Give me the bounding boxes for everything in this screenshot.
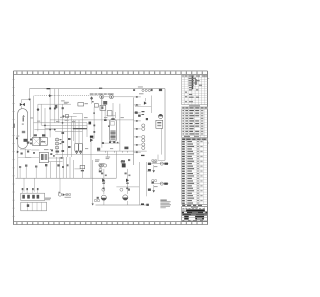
valve on pump P1 suction — [102, 179, 105, 184]
riser x73.7 — [73, 120, 75, 141]
pipe long bottom run y178.2 — [16, 177, 117, 179]
riser x58.7 — [58, 89, 60, 123]
riser x62.5 — [62, 104, 64, 157]
valve on pump P2 suction — [126, 179, 129, 184]
pipe stub y168.9 — [74, 168, 80, 170]
pipe label text above gas train — [90, 93, 114, 95]
general notes text block — [160, 200, 171, 209]
pump P1 with instruments — [100, 164, 107, 200]
riser x37.9 — [37, 104, 39, 131]
small tag on H1 at x99 — [99, 88, 102, 89]
instrument cluster x141-150 — [142, 96, 152, 121]
riser x165 return line — [164, 89, 166, 161]
parts list table — [182, 138, 208, 204]
heat exchanger W3 — [156, 120, 163, 160]
riser x75.1 — [74, 120, 76, 143]
small equipment marks y162-172 left — [19, 164, 69, 178]
vessel B1 bottom outlet — [24, 149, 26, 158]
arrow at discharge end — [146, 204, 149, 206]
pump P3 circle — [158, 114, 162, 118]
riser x146.7 distribution line — [146, 162, 148, 196]
bottom-left dosing unit — [21, 188, 51, 211]
pump bay frame line y186.9 — [116, 186, 139, 188]
valve x144.4 — [138, 98, 152, 106]
inline strainer x80-85 — [80, 165, 85, 171]
check valve left of pump P1 — [97, 197, 99, 199]
pipe run y154.6 — [55, 154, 134, 156]
valve on riser x54.8 — [54, 108, 56, 110]
dosing unit feed lines — [23, 178, 25, 192]
riser x45 — [44, 108, 46, 137]
riser x119.9 — [119, 104, 121, 151]
riser x82.4 — [81, 113, 83, 178]
vessel B1 — [16, 109, 29, 149]
instrument bubbles chain x143.3 — [142, 124, 145, 150]
riser x139.3 — [138, 162, 140, 205]
level instruments x99-103 — [99, 163, 102, 172]
pipe run y120 — [50, 119, 134, 121]
equipment list table — [182, 107, 208, 138]
riser x113 column feed — [112, 103, 114, 119]
pipe run y150 — [31, 149, 39, 151]
battery limit line x50.7 — [50, 162, 52, 178]
heat exchanger W2 — [39, 134, 47, 145]
valve on vessel B1 inlet — [20, 100, 25, 109]
packed column C1 — [106, 112, 118, 143]
riser x89.3 — [93, 107, 95, 138]
parts list footer strip — [182, 204, 208, 207]
pipe run y99.7 — [21, 99, 31, 101]
fitting blob x61.6 — [62, 107, 64, 109]
riser x116.4 — [115, 151, 117, 178]
junction arrow at node x29.5 — [28, 99, 30, 101]
pipe run y104.2 — [38, 103, 71, 105]
revision table — [182, 75, 208, 105]
junction dots — [44, 122, 63, 130]
riser x67.6 — [67, 116, 69, 157]
left border tick marks — [13, 79, 15, 216]
reducer fittings on pump lines — [103, 188, 105, 190]
pipe run y128.3 — [45, 127, 85, 129]
sheet frame border — [14, 71, 208, 225]
pipe dotted run H2 — [35, 95, 100, 97]
pipe run y116.3 — [62, 115, 77, 117]
comb risers to bottom run — [56, 157, 73, 178]
marks on riser x94.1 — [93, 112, 95, 114]
tick fittings on run y151.1 — [102, 142, 128, 152]
pipe run y125.4 — [42, 124, 87, 126]
riser x41.2 — [40, 104, 42, 125]
riser x87 — [86, 123, 88, 137]
fitting chain on header H1 — [133, 89, 162, 92]
pipe run y131.3 — [55, 130, 82, 132]
misc dark marks — [50, 147, 144, 205]
pipe labels and tags — [17, 86, 158, 195]
bottom border grid-reference strip — [17, 222, 203, 224]
heat exchanger W1 — [30, 134, 40, 145]
riser x79 — [78, 120, 80, 143]
pipe run y129.6 — [34, 129, 54, 131]
valve station x90-98 — [91, 97, 99, 107]
valve at h4 junction x88.5 — [89, 122, 92, 125]
valve on riser x50.1 — [49, 108, 51, 110]
sample cooler branch group 2 — [148, 179, 169, 192]
riser x54.8 — [54, 89, 56, 123]
sample cooler branch group 1 — [147, 159, 169, 172]
bold jacketed segment y128.7 — [73, 128, 87, 130]
battery limit line x17.8 — [17, 138, 19, 178]
riser x34.4 — [33, 96, 35, 138]
pump P2 with motor — [121, 160, 128, 200]
equipment list table caption — [189, 105, 200, 106]
pipe run y143.1 — [102, 142, 120, 144]
twin separators — [75, 144, 83, 154]
pipe run y161.4 — [48, 160, 62, 162]
pipe pump discharge header y205 — [96, 204, 149, 206]
drain station cluster x58-72 — [58, 178, 71, 198]
inline filter y114.7 — [65, 115, 68, 118]
pipe run y151.1 — [97, 150, 147, 152]
gas train valves x99-118 — [100, 94, 114, 120]
pipe run to injection header y96.8 — [113, 96, 133, 98]
riser x50.1 — [49, 89, 51, 138]
arrow on battery limit line — [17, 151, 19, 154]
riser x101.9 — [101, 96, 103, 148]
valve blobs zone y148-162 — [18, 149, 63, 159]
pressure gauges x100.5 — [99, 164, 102, 171]
pipe stub y160.3 — [158, 159, 165, 161]
fitting blob x55.5 — [55, 105, 57, 108]
pipe main header H1 — [30, 88, 166, 90]
flow arrow on dotted run — [49, 94, 52, 97]
riser x29.5 — [29, 89, 31, 100]
top border grid-reference strip — [17, 71, 203, 74]
riser x71.5 — [71, 116, 73, 157]
pump suction risers — [103, 169, 105, 194]
gauge circles above pumps — [102, 188, 105, 191]
riser x133.6 injection header — [133, 98, 135, 166]
valve on riser x37.9 — [37, 109, 39, 111]
riser x107.3 — [106, 151, 108, 157]
riser x31.3 — [30, 100, 32, 138]
valve manifold x55-66 — [56, 132, 71, 155]
pipe run y122.8 — [34, 122, 87, 124]
riser x91.6 — [91, 96, 93, 104]
inline component box x77.9 — [78, 103, 88, 106]
dark tag on header H1 — [47, 88, 51, 89]
filter unit F1 — [39, 152, 48, 162]
injection branches from header — [134, 96, 141, 153]
right border tick marks — [207, 78, 209, 143]
valve on run y119.9 at x105 — [104, 119, 107, 121]
control valve with actuator x89.9 — [90, 136, 93, 142]
riser x92.7 — [92, 160, 94, 204]
pipe run y158 — [48, 157, 61, 159]
title block — [182, 206, 208, 221]
drain arrow x92.7 — [92, 199, 100, 205]
